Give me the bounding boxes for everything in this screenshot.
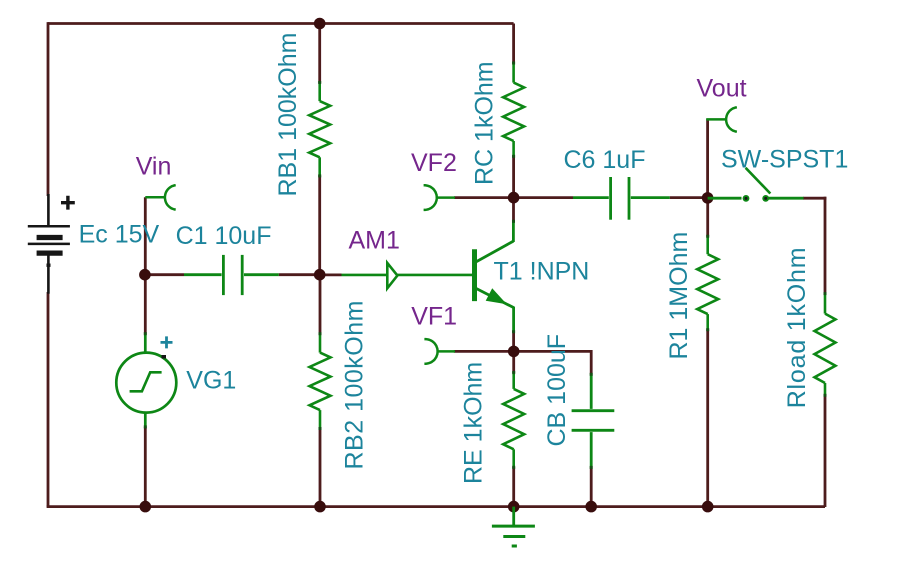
switch SW-SPST1	[708, 168, 804, 198]
wire VG1 bottom	[144, 427, 147, 507]
svg-text:Vout: Vout	[697, 74, 747, 102]
svg-text:C6 1uF: C6 1uF	[564, 146, 646, 174]
svg-text:AM1: AM1	[349, 227, 400, 255]
wire left rail lower	[47, 292, 50, 507]
transistor T1	[475, 221, 515, 332]
wire CB branch vertical top	[590, 350, 593, 374]
svg-text:RB2 100kOhm: RB2 100kOhm	[340, 300, 368, 469]
wire VF1 terminal to node	[454, 350, 514, 353]
switch contact dots	[743, 195, 750, 202]
wire R1 bottom	[706, 330, 709, 507]
node VF1 junction dot	[508, 346, 520, 358]
terminal Vout	[706, 107, 737, 131]
wire Vin drop	[144, 197, 147, 274]
ammeter AM1 (arrow)	[342, 263, 473, 288]
resistor RB1	[309, 82, 330, 176]
wire RB1 bottom (RB1 to base node)	[318, 176, 321, 275]
wire VF2 node to C6 left	[514, 196, 573, 199]
resistor RB2	[310, 333, 331, 428]
node bottom rail RB2 dot	[314, 501, 326, 513]
terminal VF1	[424, 339, 455, 364]
wire C6 right to Vout node	[670, 196, 708, 199]
wire RE bottom to ground node	[512, 467, 515, 507]
svg-text:C1 10uF: C1 10uF	[176, 222, 272, 250]
svg-text:Ec 15V: Ec 15V	[79, 221, 160, 249]
node base junction dot (C1/RB1/RB2/AM1)	[314, 269, 326, 281]
wire VF1 node to RE	[512, 351, 515, 373]
wire VF1 node to CB branch horizontal	[514, 350, 592, 353]
svg-text:RB1 100kOhm: RB1 100kOhm	[274, 33, 302, 197]
wire bottom rail	[47, 505, 825, 508]
node bottom rail ground dot	[508, 501, 520, 513]
resistor R1	[697, 236, 718, 330]
svg-text:R1 1MOhm: R1 1MOhm	[665, 232, 693, 360]
node bottom rail R1 dot	[702, 501, 714, 513]
wire RC bottom to VF2 node	[512, 156, 515, 198]
wire Vout node up	[706, 119, 709, 198]
VG1 plus sign	[161, 336, 173, 348]
node top rail junction dot	[314, 18, 326, 30]
svg-text:Vin: Vin	[136, 152, 172, 180]
wire top rail	[48, 22, 514, 25]
node B junction dot (Vin/C1/VG1)	[139, 269, 151, 281]
capacitor C6	[573, 177, 670, 220]
wire emitter to VF1 node	[512, 331, 515, 351]
wire R1 top	[706, 198, 709, 237]
svg-text:RC 1kOhm: RC 1kOhm	[471, 61, 499, 185]
svg-text:VF2: VF2	[411, 149, 457, 177]
svg-text:VG1: VG1	[186, 366, 236, 394]
svg-text:SW-SPST1: SW-SPST1	[721, 146, 848, 174]
node bottom rail CB dot	[585, 501, 597, 513]
wire VF2 node down to collector	[512, 198, 515, 221]
terminal VF2	[424, 185, 455, 210]
svg-text:Rload 1kOhm: Rload 1kOhm	[783, 247, 811, 409]
wire left rail upper	[47, 22, 50, 196]
capacitor C1	[184, 255, 279, 295]
svg-text:RE 1kOhm: RE 1kOhm	[460, 362, 488, 484]
node Vout junction dot	[702, 192, 714, 204]
wire node B to C1 left	[145, 273, 184, 276]
voltage generator VG1	[116, 334, 176, 428]
wire RB2 top	[319, 275, 322, 334]
ground	[492, 507, 535, 546]
svg-text:CB 100uF: CB 100uF	[543, 334, 571, 447]
wire right rail lower (Rload to bottom rail)	[824, 395, 827, 507]
wire C1 right to base node	[279, 273, 320, 276]
wire RB1 top (rail to RB1)	[318, 24, 321, 84]
svg-text:VF1: VF1	[411, 303, 457, 331]
svg-text:T1 !NPN: T1 !NPN	[494, 257, 590, 285]
wire VF2 terminal to node	[454, 196, 514, 199]
pin tip ticks	[144, 62, 827, 469]
node bottom rail VG1 dot	[140, 501, 152, 513]
resistor RE	[503, 372, 524, 467]
node VF2 junction dot	[508, 192, 520, 204]
wire VG1 top	[144, 275, 147, 334]
battery Ec 15V	[28, 194, 75, 294]
resistor Rload	[815, 293, 836, 395]
VG1 polarity tick	[162, 355, 167, 359]
wire RB2 bottom	[319, 429, 322, 507]
capacitor CB	[572, 374, 615, 468]
wire switch to right corner	[803, 197, 826, 200]
terminal Vin	[145, 185, 175, 209]
wire right rail upper (corner to Rload)	[824, 197, 827, 294]
wire base node to AM1	[320, 273, 342, 276]
wire CB bottom to rail	[590, 468, 593, 507]
wire RC top (rail corner to RC)	[512, 24, 515, 64]
resistor RC	[503, 63, 524, 157]
